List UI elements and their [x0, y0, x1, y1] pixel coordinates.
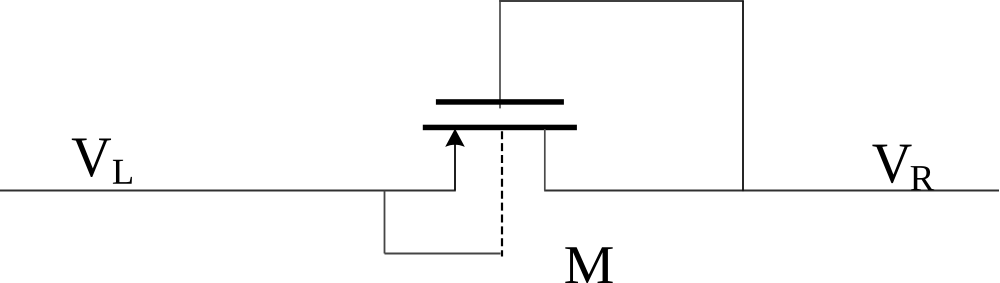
- transistor M: channel bar: [423, 125, 577, 131]
- wire: body return, vertical drop from left rail: [384, 191, 386, 254]
- label V_R subscript R: [911, 166, 935, 190]
- label M device designator: [565, 247, 612, 283]
- label V_L subscript L: [113, 160, 132, 184]
- wire: body return, bottom horizontal: [385, 253, 501, 255]
- arrow: source/body arrow shaft: [454, 144, 456, 191]
- dashed line: channel / memristive region indicator: [501, 131, 503, 256]
- wire: right terminal (V_R rail): [544, 190, 999, 192]
- wire: gate lead (vertical into gate): [499, 0, 501, 108]
- wire: left terminal (V_L rail): [0, 190, 456, 192]
- arrow: source/body arrowhead: [445, 129, 465, 147]
- wire: top feedback (horizontal): [499, 0, 744, 2]
- wire: drain lead (channel to right rail): [544, 129, 546, 191]
- label V_L letter V: [72, 138, 111, 177]
- wire: right feedback drop to V_R rail: [742, 1, 744, 192]
- transistor M: gate bar: [436, 99, 564, 105]
- label V_R letter V: [872, 145, 911, 184]
